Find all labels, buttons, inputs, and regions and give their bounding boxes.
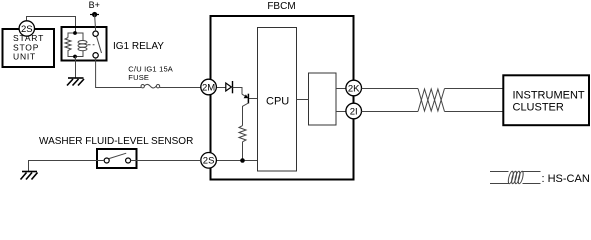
junction node xyxy=(240,158,245,163)
fuse C/U IG1 15A xyxy=(141,84,160,88)
wire twisted pair to cluster (bottom) xyxy=(445,111,504,113)
wire fuse to 2M xyxy=(160,87,201,89)
wire relay switch to fuse xyxy=(96,58,141,88)
ground (relay coil) xyxy=(67,78,84,86)
wire transistor to resistor xyxy=(242,106,244,126)
washer sensor right contact xyxy=(126,158,131,163)
connector 2K xyxy=(346,80,362,96)
CPU box xyxy=(258,28,297,172)
washer sensor blade xyxy=(109,153,126,158)
connector 2S (FBCM) xyxy=(201,153,217,169)
resistor R1 zigzag xyxy=(239,126,246,142)
transistor Q1 (PNP) xyxy=(242,94,258,107)
svg-text:CPU: CPU xyxy=(266,95,289,107)
wire resistor to 2S node xyxy=(242,142,244,161)
wire diode to transistor xyxy=(233,88,243,95)
svg-text:2M: 2M xyxy=(202,82,215,93)
wire 2S to CPU xyxy=(216,160,257,162)
relay coil bottom junction xyxy=(73,55,77,59)
wire twisted pair to cluster (top) xyxy=(445,88,504,90)
svg-text:FBCM: FBCM xyxy=(267,1,295,12)
wire sensor box to left contact xyxy=(97,160,104,162)
svg-text:IG1 RELAY: IG1 RELAY xyxy=(113,41,164,52)
wire CPU to driver box xyxy=(297,99,309,101)
start stop unit box xyxy=(3,29,55,67)
twisted pair HS-CAN xyxy=(418,89,445,112)
wire B+ to relay switch xyxy=(95,15,96,32)
relay coil top junction xyxy=(73,31,77,35)
relay switch top contact xyxy=(93,31,98,36)
relay switch bottom contact xyxy=(93,53,98,58)
svg-text:B+: B+ xyxy=(89,0,100,10)
relay box IG1 xyxy=(62,27,107,61)
svg-text:CLUSTER: CLUSTER xyxy=(513,101,564,113)
svg-text:INSTRUMENT: INSTRUMENT xyxy=(513,90,585,102)
wire sensor to 2S xyxy=(137,160,202,162)
wire 2S unit to relay coil xyxy=(27,17,76,34)
instrument cluster box xyxy=(503,75,589,125)
diode D1 xyxy=(226,81,233,93)
wire right contact to box edge xyxy=(131,160,137,162)
washer sensor box xyxy=(97,149,137,168)
svg-text:UNIT: UNIT xyxy=(13,52,36,62)
svg-text:2S: 2S xyxy=(203,156,215,167)
relay coil inductor xyxy=(78,41,87,44)
svg-text:2I: 2I xyxy=(350,106,358,117)
driver box xyxy=(309,73,337,125)
relay coil loop wires xyxy=(68,33,75,38)
ground (washer sensor) xyxy=(21,172,38,180)
B+ junction dot xyxy=(92,12,97,17)
connector 2S (start stop unit) xyxy=(19,21,34,36)
svg-text:2S: 2S xyxy=(21,24,33,35)
relay dashed actuator link xyxy=(88,44,95,46)
svg-text:2K: 2K xyxy=(348,83,360,94)
svg-text:: HS-CAN: : HS-CAN xyxy=(542,173,590,185)
wire 2I to twisted pair xyxy=(362,111,419,113)
connector 2I xyxy=(346,103,362,119)
B+ rail bar xyxy=(90,14,99,16)
wire 2M to diode xyxy=(216,87,225,89)
wire driver to 2K xyxy=(336,88,346,90)
legend twisted pair symbol xyxy=(490,171,541,183)
svg-text:FUSE: FUSE xyxy=(128,73,149,82)
svg-text:WASHER FLUID-LEVEL SENSOR: WASHER FLUID-LEVEL SENSOR xyxy=(39,136,193,147)
wire 2K to twisted pair xyxy=(362,88,419,90)
FBCM box xyxy=(211,16,354,180)
relay coil resistor zigzag xyxy=(65,38,71,53)
wire relay coil to ground xyxy=(75,57,77,78)
relay switch blade xyxy=(97,37,102,53)
connector 2M xyxy=(201,79,217,95)
washer sensor left contact xyxy=(104,158,109,163)
wire driver to 2I xyxy=(336,111,346,113)
wire ground to sensor xyxy=(29,161,98,172)
